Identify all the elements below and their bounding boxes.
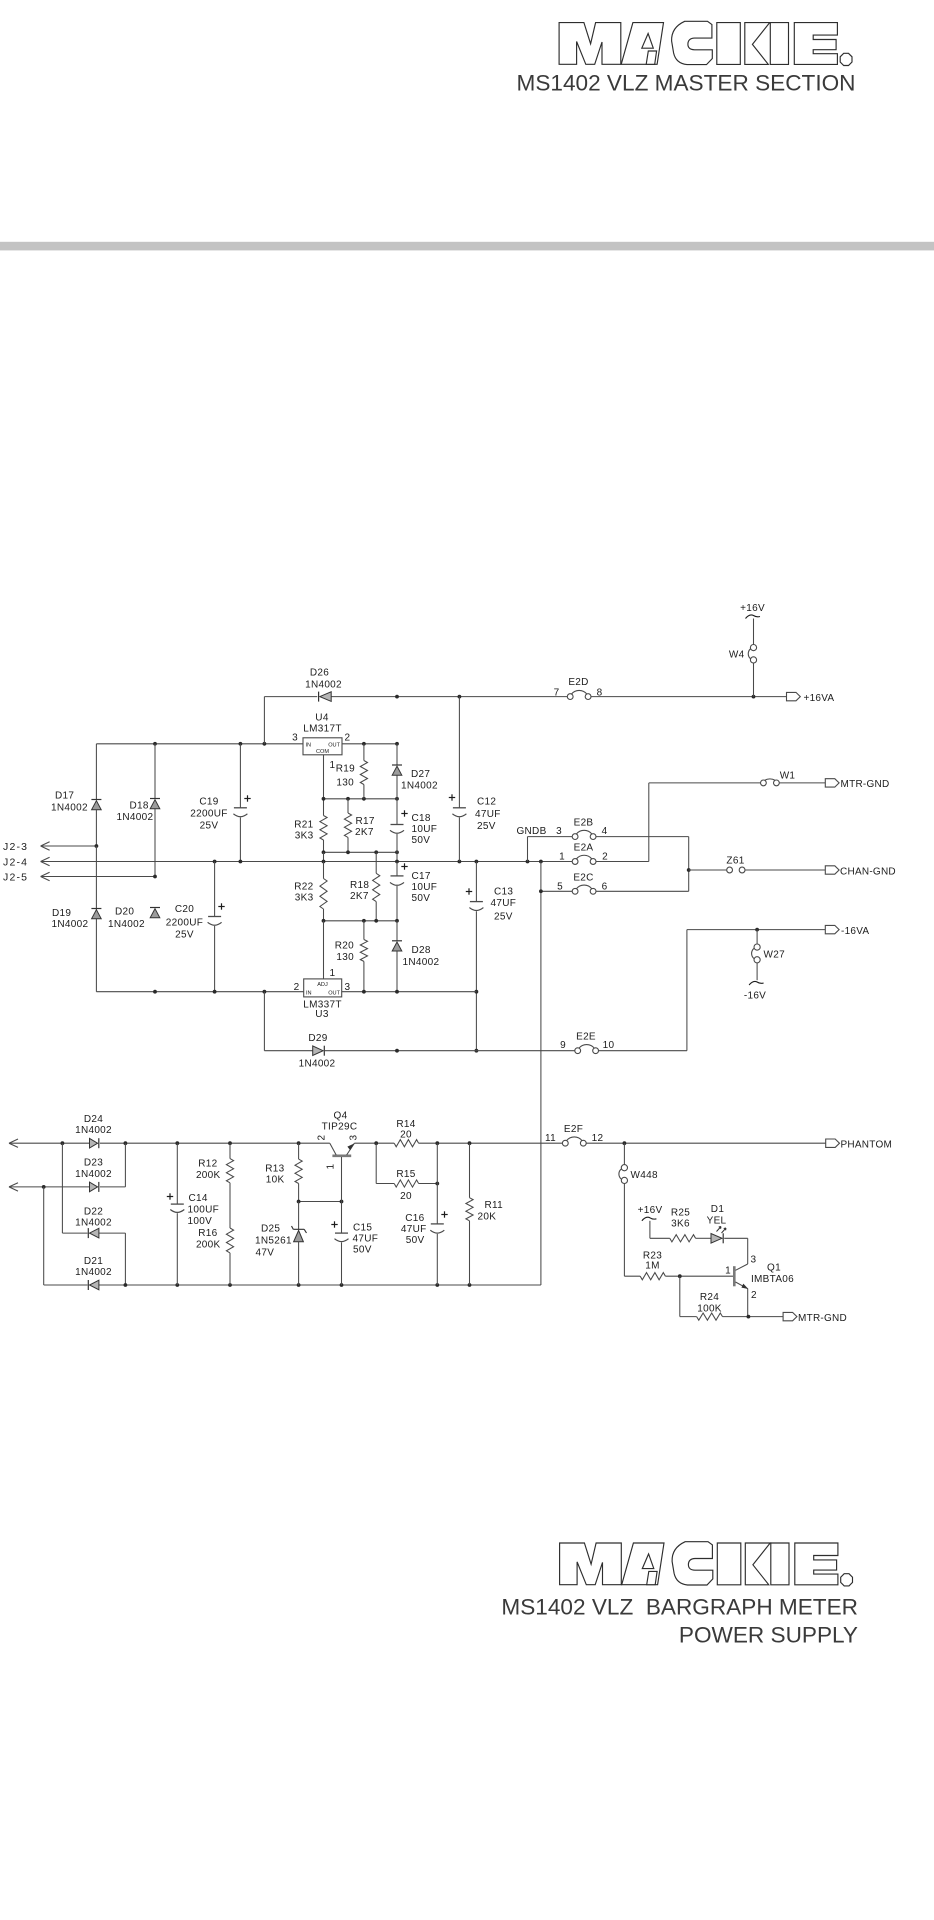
svg-text:1N5261: 1N5261 bbox=[255, 1236, 292, 1247]
svg-text:1N4002: 1N4002 bbox=[75, 1218, 112, 1229]
connector tag +16VA bbox=[787, 692, 835, 704]
connector tag MTR-GND (bottom) bbox=[783, 1312, 847, 1324]
svg-text:1N4002: 1N4002 bbox=[108, 919, 145, 930]
capacitor C20 bbox=[208, 862, 225, 992]
diode D17 bbox=[91, 744, 101, 846]
svg-text:D19: D19 bbox=[52, 908, 71, 919]
port arrow J2-3 bbox=[3, 841, 98, 853]
connector tag MTR-GND (top) bbox=[825, 779, 889, 790]
svg-text:3K3: 3K3 bbox=[295, 831, 314, 842]
svg-text:POWER SUPPLY: POWER SUPPLY bbox=[679, 1623, 858, 1648]
capacitor C18 bbox=[390, 799, 408, 862]
resistor R15 bbox=[394, 1180, 418, 1187]
diode D18 bbox=[150, 744, 160, 877]
svg-text:R21: R21 bbox=[294, 820, 313, 831]
svg-text:1N4002: 1N4002 bbox=[117, 812, 154, 823]
label C17 10UF 50V bbox=[412, 871, 438, 904]
wire R23 line (y1276.2) bbox=[624, 1275, 733, 1277]
+16V power symbol bbox=[740, 603, 765, 644]
wire GNDB long vertical bbox=[540, 891, 542, 1285]
svg-text:8: 8 bbox=[597, 688, 603, 699]
label R15 20 bbox=[396, 1169, 415, 1202]
wire ADJ bus to ground bbox=[323, 852, 325, 861]
svg-text:+16V: +16V bbox=[638, 1205, 663, 1216]
wire R24 line (y1316.6) bbox=[680, 1276, 783, 1318]
port arrow J2-4 (main ground rail) bbox=[3, 857, 572, 869]
svg-text:2K7: 2K7 bbox=[350, 891, 369, 902]
wire MTR-GND line (y782.9) bbox=[649, 782, 826, 784]
capacitor C15 bbox=[331, 1202, 348, 1286]
connector tag -16VA bbox=[825, 925, 869, 937]
svg-text:D17: D17 bbox=[55, 791, 74, 802]
svg-text:1N4002: 1N4002 bbox=[401, 781, 438, 792]
label R23 1M bbox=[643, 1251, 662, 1272]
svg-text:50V: 50V bbox=[412, 893, 431, 904]
node junctions on +16 raw rail bbox=[395, 695, 755, 699]
label D25 1N5261 47V bbox=[255, 1224, 292, 1259]
label R17 2K7 bbox=[355, 816, 375, 838]
MACKIE logo (bottom) bbox=[560, 1542, 853, 1586]
resistor R25 bbox=[670, 1235, 711, 1242]
svg-text:20: 20 bbox=[400, 1130, 412, 1141]
resistor R11 bbox=[466, 1143, 473, 1285]
svg-text:47UF: 47UF bbox=[353, 1234, 379, 1245]
node junctions ADJ bus bbox=[322, 797, 399, 801]
labels U3 LM337T bbox=[303, 1000, 342, 1021]
svg-text:ADJ: ADJ bbox=[317, 982, 328, 988]
jumper E2F bbox=[562, 1137, 586, 1146]
svg-text:D22: D22 bbox=[84, 1207, 103, 1218]
label C13 47UF 25V bbox=[491, 887, 517, 923]
wire ADJ bus (y798.8) bbox=[324, 798, 398, 800]
svg-text:2K7: 2K7 bbox=[355, 827, 374, 838]
svg-text:200K: 200K bbox=[196, 1170, 221, 1181]
svg-text:R13: R13 bbox=[265, 1164, 284, 1175]
wire D23 line (y1186.9) bbox=[42, 1143, 126, 1189]
svg-text:12: 12 bbox=[592, 1133, 604, 1144]
svg-text:25V: 25V bbox=[494, 912, 513, 923]
svg-text:C17: C17 bbox=[412, 871, 431, 882]
svg-text:R19: R19 bbox=[336, 764, 355, 775]
jumper W4 bbox=[729, 645, 757, 697]
label R11 20K bbox=[478, 1200, 504, 1223]
label R22 3K3 bbox=[294, 882, 313, 904]
svg-text:D26: D26 bbox=[310, 668, 329, 679]
diode D22 bbox=[88, 1228, 99, 1238]
svg-text:R14: R14 bbox=[396, 1119, 415, 1130]
svg-text:20: 20 bbox=[400, 1191, 412, 1202]
svg-text:9: 9 bbox=[560, 1040, 566, 1051]
svg-text:R12: R12 bbox=[198, 1159, 217, 1170]
svg-text:2: 2 bbox=[345, 733, 351, 744]
svg-text:7: 7 bbox=[554, 688, 560, 699]
wire GNDB stub to E2B bbox=[528, 837, 573, 862]
jumper E2A bbox=[572, 855, 596, 864]
resistor R12 bbox=[226, 1143, 233, 1228]
svg-text:50V: 50V bbox=[353, 1245, 372, 1256]
svg-text:11: 11 bbox=[545, 1133, 556, 1144]
svg-text:200K: 200K bbox=[196, 1240, 221, 1251]
svg-text:25V: 25V bbox=[477, 821, 496, 832]
svg-text:OUT: OUT bbox=[328, 743, 340, 749]
svg-text:LM317T: LM317T bbox=[303, 724, 342, 735]
labels Q1 IMBTA06 bbox=[751, 1263, 794, 1286]
node junctions lower ADJ bus bbox=[322, 919, 399, 923]
svg-text:YEL: YEL bbox=[707, 1216, 727, 1227]
pin numbers U3 bbox=[294, 968, 351, 993]
labels E2A pins 1 2 bbox=[559, 843, 608, 863]
svg-text:1N4002: 1N4002 bbox=[299, 1059, 336, 1070]
svg-text:E2A: E2A bbox=[574, 843, 594, 854]
svg-text:2: 2 bbox=[602, 852, 608, 863]
resistor R16 bbox=[226, 1228, 233, 1285]
svg-text:3K6: 3K6 bbox=[671, 1219, 690, 1230]
svg-text:E2C: E2C bbox=[573, 873, 593, 884]
svg-text:C18: C18 bbox=[412, 813, 431, 824]
svg-text:E2B: E2B bbox=[574, 818, 594, 829]
svg-text:GNDB: GNDB bbox=[516, 826, 546, 837]
wire D26 bypass vertical bbox=[263, 697, 265, 744]
svg-text:J2-3: J2-3 bbox=[3, 841, 28, 853]
svg-text:100V: 100V bbox=[188, 1216, 213, 1227]
svg-text:1: 1 bbox=[725, 1266, 731, 1277]
port arrow phantom input A bbox=[9, 1142, 62, 1144]
svg-text:-16VA: -16VA bbox=[841, 926, 869, 937]
wire R13 to Q4 base (y1201.5) bbox=[297, 1200, 344, 1204]
connector tag CHAN-GND bbox=[825, 866, 896, 878]
svg-text:47UF: 47UF bbox=[491, 898, 517, 909]
wire D22 line (y1233.1) bbox=[62, 1143, 125, 1285]
wire lower ADJ bus (y920.8) bbox=[324, 920, 398, 922]
diode D29 bbox=[264, 1046, 574, 1056]
capacitor C14 bbox=[167, 1143, 185, 1285]
label C18 10UF 50V bbox=[412, 813, 438, 846]
label D28 1N4002 bbox=[403, 945, 440, 968]
label R19 130 bbox=[336, 764, 355, 789]
label D20 1N4002 bbox=[108, 907, 145, 931]
svg-text:D18: D18 bbox=[130, 801, 149, 812]
svg-text:1N4002: 1N4002 bbox=[75, 1267, 112, 1278]
label D22 1N4002 bbox=[75, 1207, 112, 1229]
capacitor C19 bbox=[233, 744, 250, 862]
wire D17 D19 junction vertical bbox=[95, 846, 97, 992]
svg-text:C20: C20 bbox=[175, 904, 194, 915]
svg-text:D20: D20 bbox=[115, 907, 134, 918]
svg-text:47UF: 47UF bbox=[401, 1224, 427, 1235]
svg-text:R20: R20 bbox=[335, 941, 354, 952]
resistor R24 bbox=[697, 1313, 723, 1320]
svg-text:-16V: -16V bbox=[744, 991, 766, 1002]
svg-text:COM: COM bbox=[316, 749, 329, 755]
svg-text:47V: 47V bbox=[256, 1248, 275, 1259]
jumper E2C bbox=[572, 885, 596, 894]
labels Q4 TIP29C bbox=[322, 1111, 358, 1133]
svg-text:R25: R25 bbox=[671, 1208, 690, 1219]
resistor R13 bbox=[295, 1143, 302, 1201]
wire U3 ADJ lead bbox=[323, 921, 325, 979]
svg-text:C19: C19 bbox=[199, 797, 218, 808]
capacitor C13 bbox=[466, 862, 484, 1051]
node junctions on input rail bbox=[153, 742, 399, 746]
jumper E2E bbox=[575, 1045, 599, 1054]
svg-text:1M: 1M bbox=[645, 1261, 660, 1272]
svg-text:Z61: Z61 bbox=[726, 856, 744, 867]
label C16 47UF 50V bbox=[401, 1213, 427, 1246]
jumper Z61 (two pads) bbox=[726, 856, 745, 873]
svg-text:TIP29C: TIP29C bbox=[322, 1122, 358, 1133]
label R12 200K bbox=[196, 1159, 221, 1182]
svg-text:50V: 50V bbox=[412, 835, 431, 846]
wire -16VA line (y929.6) bbox=[687, 928, 825, 932]
svg-text:3: 3 bbox=[751, 1255, 757, 1266]
resistor R18 bbox=[373, 852, 380, 921]
svg-text:W4: W4 bbox=[729, 650, 745, 661]
zener diode D25 bbox=[292, 1202, 307, 1286]
svg-text:CHAN-GND: CHAN-GND bbox=[840, 867, 896, 878]
label C15 47UF 50V bbox=[353, 1223, 379, 1256]
diode D24 bbox=[90, 1138, 99, 1148]
wire divider bus (y852.3) bbox=[324, 851, 398, 853]
labels E2F pins 11 12 bbox=[545, 1124, 603, 1144]
wire +16 raw rail (y697) bbox=[264, 696, 786, 698]
resistor R14 bbox=[394, 1140, 418, 1147]
svg-text:1N4002: 1N4002 bbox=[75, 1125, 112, 1136]
port arrow phantom input B bbox=[9, 1186, 44, 1188]
svg-text:E2D: E2D bbox=[568, 677, 588, 688]
wire D21 line / bottom rail (y1285) bbox=[44, 1187, 541, 1285]
svg-text:25V: 25V bbox=[175, 930, 194, 941]
label D21 1N4002 bbox=[75, 1256, 112, 1278]
svg-text:C13: C13 bbox=[494, 887, 513, 898]
svg-text:R24: R24 bbox=[700, 1292, 719, 1303]
resistor R17 bbox=[344, 799, 351, 853]
svg-text:10UF: 10UF bbox=[412, 882, 438, 893]
label R20 130 bbox=[335, 941, 354, 964]
label C19 2200UF 25V bbox=[190, 797, 227, 832]
jumper W448 bbox=[619, 1143, 658, 1276]
svg-text:1: 1 bbox=[326, 1164, 337, 1170]
capacitor C17 bbox=[390, 863, 408, 885]
svg-text:R18: R18 bbox=[350, 880, 369, 891]
svg-text:3: 3 bbox=[292, 733, 298, 744]
wire R15 branch bbox=[376, 1143, 439, 1185]
capacitor C16 bbox=[430, 1143, 447, 1285]
resistor R23 bbox=[640, 1273, 665, 1280]
node junctions C13 line bbox=[475, 990, 479, 1053]
svg-text:4: 4 bbox=[602, 826, 608, 837]
svg-text:D29: D29 bbox=[308, 1033, 327, 1044]
diode D26 bbox=[319, 692, 332, 702]
svg-text:3: 3 bbox=[556, 826, 562, 837]
wire negative raw rail (y991.7) bbox=[96, 991, 476, 993]
svg-text:R15: R15 bbox=[396, 1169, 415, 1180]
svg-text:1: 1 bbox=[330, 760, 336, 771]
wire phantom top rail (y1143.2) bbox=[62, 1142, 825, 1144]
LED D1 YEL bbox=[711, 1227, 748, 1244]
diode D28 bbox=[392, 921, 402, 992]
svg-text:W448: W448 bbox=[631, 1170, 658, 1181]
svg-text:D23: D23 bbox=[84, 1158, 103, 1169]
labels E2E pins 9 10 bbox=[560, 1032, 614, 1052]
svg-text:47UF: 47UF bbox=[475, 809, 501, 820]
op-amp U3 LM337T regulator box bbox=[304, 979, 342, 997]
wire E2E to -16VA corner bbox=[599, 930, 687, 1051]
wire E2A to MTR-GND riser bbox=[596, 783, 649, 862]
grey divider bar bbox=[0, 242, 934, 251]
svg-text:2: 2 bbox=[317, 1135, 328, 1141]
wire C17 leads bbox=[396, 862, 398, 921]
svg-text:1: 1 bbox=[559, 852, 565, 863]
wire regulator input rail (y744) bbox=[96, 743, 397, 745]
label D23 1N4002 bbox=[75, 1158, 112, 1181]
diode D19 bbox=[91, 909, 101, 919]
svg-text:D24: D24 bbox=[84, 1114, 103, 1125]
diode D20 bbox=[150, 908, 160, 918]
svg-text:MTR-GND: MTR-GND bbox=[841, 779, 890, 790]
svg-text:R16: R16 bbox=[198, 1228, 217, 1239]
-16V power symbol bbox=[744, 981, 766, 1001]
svg-text:C15: C15 bbox=[353, 1223, 372, 1234]
label D24 1N4002 bbox=[75, 1114, 112, 1136]
svg-text:C16: C16 bbox=[405, 1213, 424, 1224]
svg-text:U3: U3 bbox=[315, 1009, 329, 1020]
label D19 1N4002 bbox=[52, 908, 89, 930]
label R18 2K7 bbox=[350, 880, 369, 902]
pin numbers Q4 (rotated) bbox=[317, 1135, 360, 1170]
svg-text:1: 1 bbox=[330, 968, 336, 979]
diode D21 bbox=[88, 1280, 99, 1290]
svg-text:MS1402 VLZ MASTER SECTION: MS1402 VLZ MASTER SECTION bbox=[517, 71, 856, 96]
svg-text:MS1402 VLZ BARGRAPH METER: MS1402 VLZ BARGRAPH METER bbox=[501, 1595, 858, 1620]
svg-text:10K: 10K bbox=[266, 1175, 285, 1186]
jumper W1 bbox=[761, 771, 796, 786]
labels D1 YEL bbox=[707, 1204, 727, 1227]
svg-text:Q4: Q4 bbox=[334, 1111, 348, 1122]
capacitor C12 bbox=[449, 697, 467, 862]
jumper E2B bbox=[572, 830, 596, 839]
label C14 100UF 100V bbox=[188, 1193, 220, 1227]
svg-text:25V: 25V bbox=[200, 821, 219, 832]
svg-text:+16VA: +16VA bbox=[804, 693, 835, 704]
svg-text:130: 130 bbox=[336, 952, 354, 963]
label R25 3K6 bbox=[671, 1208, 690, 1230]
svg-text:D1: D1 bbox=[711, 1204, 725, 1215]
wire E2B to chan-gnd riser bbox=[596, 837, 689, 892]
node R23 R24 junction bbox=[678, 1274, 682, 1278]
+16V power symbol (LED supply) bbox=[638, 1205, 670, 1238]
connector tag PHANTOM bbox=[826, 1139, 892, 1151]
MACKIE logo (top) bbox=[559, 21, 852, 65]
label R24 100K bbox=[697, 1292, 722, 1315]
svg-text:1N4002: 1N4002 bbox=[305, 680, 342, 691]
svg-text:R22: R22 bbox=[294, 882, 313, 893]
node junctions phantom rail bbox=[61, 1141, 627, 1145]
svg-text:U4: U4 bbox=[315, 713, 329, 724]
svg-text:1N4002: 1N4002 bbox=[51, 803, 88, 814]
svg-text:E2E: E2E bbox=[576, 1032, 596, 1043]
wire D29 branch vertical bbox=[263, 992, 265, 1051]
transistor Q4 TIP29C bbox=[330, 1143, 355, 1201]
svg-text:1N4002: 1N4002 bbox=[403, 957, 440, 968]
label D18 1N4002 bbox=[117, 801, 154, 824]
resistor R22 bbox=[320, 862, 327, 921]
wire CHAN-GND line (y870) bbox=[689, 869, 826, 871]
svg-text:R11: R11 bbox=[485, 1200, 504, 1211]
svg-text:10: 10 bbox=[603, 1040, 615, 1051]
label R13 10K bbox=[265, 1164, 284, 1186]
wire E2C stub bbox=[541, 862, 572, 892]
transistor Q1 IMBTA06 bbox=[734, 1238, 747, 1316]
svg-text:3: 3 bbox=[349, 1135, 360, 1141]
node junctions E2E line bbox=[395, 1049, 399, 1053]
svg-text:1N4002: 1N4002 bbox=[52, 919, 89, 930]
label D17 1N4002 bbox=[51, 791, 88, 814]
svg-text:C14: C14 bbox=[189, 1193, 208, 1204]
node GNDB riser top junction bbox=[539, 889, 543, 893]
label D29 1N4002 bbox=[299, 1033, 336, 1070]
node junctions divider bus bbox=[322, 850, 399, 854]
diode D27 bbox=[392, 744, 402, 799]
resistor R19 bbox=[360, 744, 367, 799]
jumper W27 bbox=[752, 930, 786, 981]
svg-text:PHANTOM: PHANTOM bbox=[841, 1140, 893, 1151]
svg-text:J2-4: J2-4 bbox=[3, 857, 28, 869]
svg-text:IN: IN bbox=[306, 991, 312, 997]
svg-text:130: 130 bbox=[336, 778, 354, 789]
labels E2C pins 5 6 bbox=[557, 873, 608, 893]
label R14 20 bbox=[396, 1119, 415, 1141]
svg-text:W27: W27 bbox=[764, 950, 786, 961]
labels U4 LM317T bbox=[303, 713, 342, 735]
jumper E2D bbox=[567, 690, 591, 699]
svg-text:OUT: OUT bbox=[328, 991, 340, 997]
svg-text:IMBTA06: IMBTA06 bbox=[751, 1274, 794, 1285]
label C12 47UF 25V bbox=[475, 797, 501, 833]
svg-text:D27: D27 bbox=[411, 769, 430, 780]
label D27 1N4002 bbox=[401, 769, 438, 792]
wire E2C to riser bbox=[596, 890, 689, 892]
svg-text:2200UF: 2200UF bbox=[166, 918, 203, 929]
pin numbers Q1 bbox=[725, 1255, 757, 1302]
svg-text:Q1: Q1 bbox=[767, 1263, 781, 1274]
svg-text:100K: 100K bbox=[697, 1304, 722, 1315]
svg-text:W1: W1 bbox=[780, 771, 796, 782]
svg-text:2: 2 bbox=[751, 1290, 757, 1301]
svg-text:+16V: +16V bbox=[740, 603, 765, 614]
svg-text:2200UF: 2200UF bbox=[190, 809, 227, 820]
svg-text:3K3: 3K3 bbox=[295, 893, 314, 904]
svg-text:R17: R17 bbox=[356, 816, 375, 827]
labels E2B pins 3 4 bbox=[556, 818, 608, 838]
resistor R21 bbox=[320, 816, 327, 853]
svg-text:5: 5 bbox=[557, 882, 563, 893]
labels E2D pins 7 8 bbox=[554, 677, 603, 699]
label R21 3K3 bbox=[294, 820, 313, 842]
svg-text:D25: D25 bbox=[261, 1224, 280, 1235]
svg-text:1N4002: 1N4002 bbox=[75, 1169, 112, 1180]
svg-text:D28: D28 bbox=[412, 945, 431, 956]
label D26 1N4002 bbox=[305, 668, 342, 691]
label C20 2200UF 25V bbox=[166, 904, 203, 941]
node junctions bottom rail bbox=[124, 1283, 472, 1287]
wire U4 COM to ADJ bus bbox=[323, 755, 325, 816]
node chan-gnd riser junction bbox=[687, 868, 691, 872]
op-amp U4 LM317T regulator box bbox=[303, 738, 342, 755]
port arrow J2-5 bbox=[3, 872, 157, 884]
svg-text:J2-5: J2-5 bbox=[3, 872, 28, 884]
svg-text:MTR-GND: MTR-GND bbox=[798, 1313, 847, 1324]
pin numbers U4 bbox=[292, 733, 350, 772]
